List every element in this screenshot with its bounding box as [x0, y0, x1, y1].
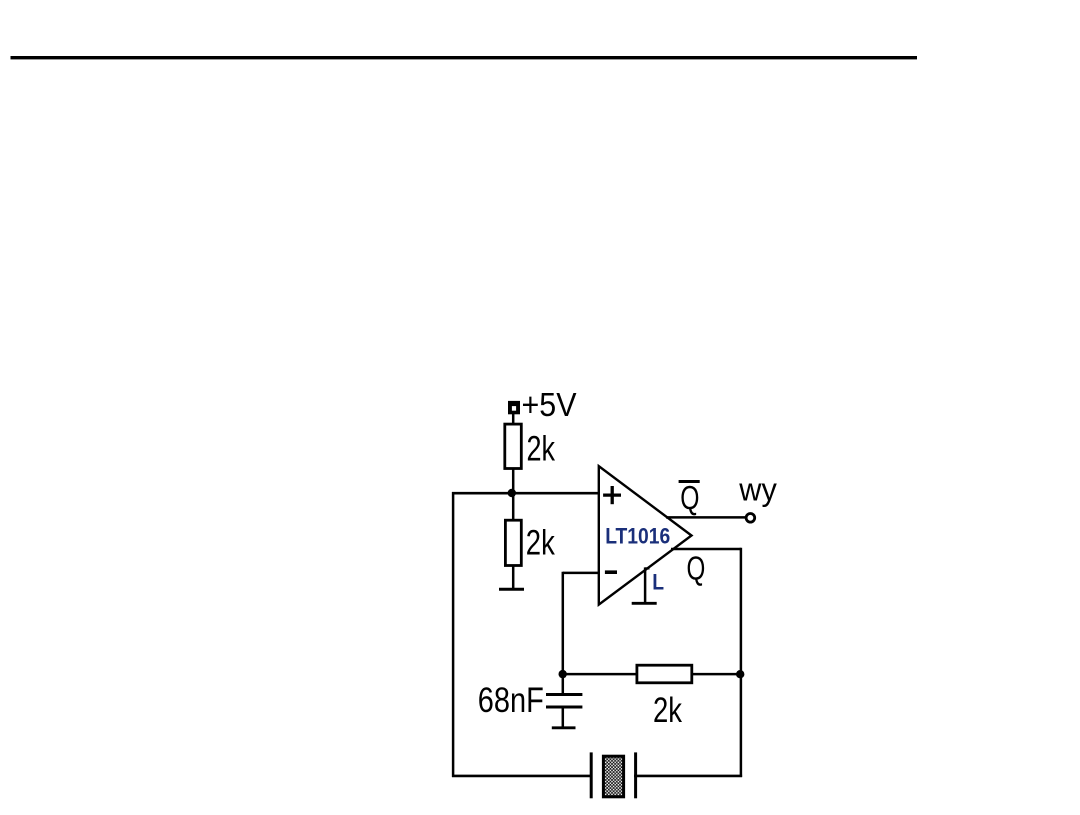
wire: R1 to node A	[512, 470, 515, 494]
svg-text:2k: 2k	[653, 691, 682, 730]
capacitor C1 bottom plate	[546, 706, 582, 709]
ground (latch pin)	[632, 602, 657, 605]
capacitor C1 top plate	[546, 693, 582, 696]
wire: bottom left	[452, 775, 592, 778]
svg-text:+5V: +5V	[522, 387, 578, 424]
resistor R1	[505, 424, 522, 468]
node C junction dot	[736, 670, 744, 678]
wire: -input vertical	[562, 572, 565, 675]
wire: -input horizontal	[563, 572, 600, 575]
+input symbol	[603, 486, 621, 504]
crystal X1 right plate	[634, 752, 637, 798]
-input symbol	[605, 570, 617, 574]
svg-text:Q: Q	[687, 550, 706, 587]
capacitor C1 wire from node B	[562, 673, 565, 694]
svg-text:Q: Q	[680, 480, 699, 517]
overbar of Q	[679, 480, 700, 483]
wire: right rail	[740, 548, 743, 777]
ground (below R2)	[499, 588, 524, 591]
node B junction dot	[559, 670, 567, 678]
resistor R2	[505, 520, 521, 565]
comparator U1 LT1016	[599, 466, 692, 604]
wire: C1 to ground	[562, 707, 565, 727]
wire: Q-bar output	[666, 516, 747, 519]
node A junction dot	[508, 489, 516, 497]
svg-text:L: L	[652, 570, 664, 595]
wire: node B to R3	[563, 673, 638, 676]
crystal X1 left plate	[590, 752, 593, 798]
output terminal wy	[746, 514, 755, 523]
wire: Q output	[671, 548, 741, 551]
svg-text:68nF: 68nF	[478, 681, 544, 720]
wire: R2 to ground	[512, 565, 515, 589]
latch pin stub	[645, 567, 649, 602]
page header rule	[11, 56, 918, 59]
svg-text:LT1016: LT1016	[605, 524, 670, 549]
svg-text:wy: wy	[738, 471, 776, 507]
wire: +input horizontal	[452, 492, 600, 495]
ground (below C1)	[552, 726, 576, 729]
wire: node A to R2	[512, 493, 515, 521]
wire: terminal to R1	[512, 411, 515, 425]
svg-text:2k: 2k	[526, 523, 555, 562]
+5V supply terminal	[508, 401, 520, 414]
wire: bottom right	[634, 775, 742, 778]
wire: R3 to node C	[691, 673, 743, 676]
crystal X1 body	[603, 756, 623, 797]
resistor R3	[637, 665, 692, 683]
svg-text:2k: 2k	[527, 430, 556, 469]
wire: left rail	[452, 492, 455, 777]
